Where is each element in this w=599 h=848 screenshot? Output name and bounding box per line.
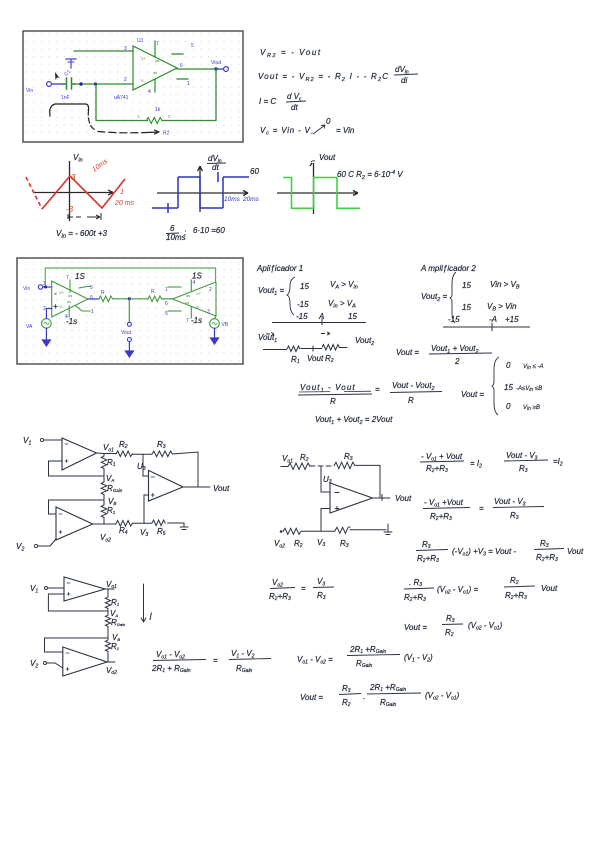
wire V3 to plus input: [144, 495, 149, 523]
svg-text:-15: -15: [448, 315, 460, 324]
resistor R1b chain: [101, 500, 116, 524]
annotation +15 / -15 / - / +: [53, 272, 85, 326]
svg-text:dt: dt: [212, 163, 219, 172]
plus mark: [335, 507, 339, 511]
svg-text:R: R: [101, 290, 105, 296]
resistor R1 chain b: [105, 589, 119, 611]
svg-text:-A: -A: [489, 315, 497, 324]
op-amp U1 uA741: [133, 41, 188, 92]
resistor R2 bottom: [283, 528, 303, 549]
svg-text:3: 3: [207, 309, 210, 315]
svg-text:uA741: uA741: [114, 95, 129, 101]
svg-text:-15: -15: [297, 300, 309, 309]
red labels: [66, 158, 135, 214]
svg-text:15: 15: [504, 383, 513, 392]
wire Vin to pin3: [43, 286, 52, 288]
red wave axes: [33, 161, 113, 221]
wire top feedback: [45, 268, 215, 287]
wire to junction: [132, 453, 152, 455]
svg-text:6: 6: [165, 301, 168, 307]
svg-text:Vout - V3: Vout - V3: [494, 497, 526, 508]
svg-text:R2+R3: R2+R3: [404, 593, 426, 603]
svg-text:2: 2: [124, 77, 127, 83]
node after C1: [79, 82, 82, 85]
svg-text:=: =: [301, 584, 306, 593]
svg-text:6·10 =60: 6·10 =60: [193, 226, 225, 235]
ground VA: [42, 328, 50, 346]
svg-text:-A≤Vin ≤B: -A≤Vin ≤B: [516, 386, 542, 393]
svg-text:R2+R3: R2+R3: [417, 554, 439, 564]
eq Vo1-Vo2 gain: [297, 645, 433, 669]
svg-text::: :: [184, 228, 186, 237]
number line 1: [272, 312, 366, 325]
svg-text:os: os: [186, 293, 190, 298]
svg-text:-: -: [54, 289, 57, 298]
svg-text:VB: VB: [222, 322, 229, 328]
capacitor C1 1nF: [61, 69, 75, 101]
eq Vout big cases: [461, 357, 544, 415]
resistor RGain b: [105, 611, 126, 638]
ground Vout: [125, 342, 133, 358]
svg-text:2: 2: [454, 357, 460, 366]
resistor R3 top: [334, 452, 355, 469]
svg-text:VB > Vin: VB > Vin: [487, 302, 517, 313]
svg-text:R2+R3: R2+R3: [536, 553, 558, 563]
svg-text:V-: V-: [59, 304, 63, 309]
wire output Vout: [373, 495, 391, 501]
svg-text:1k: 1k: [155, 107, 161, 113]
eq line6: [404, 614, 503, 638]
op-amp U3b: [330, 483, 373, 513]
wire junction to minus input: [143, 454, 149, 476]
svg-text:R2+R3: R2+R3: [426, 464, 448, 474]
svg-text:3: 3: [124, 46, 127, 52]
wire plus input: [321, 509, 330, 532]
svg-text:Vout =: Vout =: [300, 693, 323, 702]
node V2 input b: [30, 659, 47, 670]
resistor R3 top: [152, 440, 172, 457]
wire in: [281, 466, 288, 468]
eq Vout1 cases: [258, 277, 358, 315]
svg-text:20ms: 20ms: [242, 196, 260, 203]
terminal Vout2: [121, 322, 132, 341]
svg-text:os: os: [155, 58, 159, 63]
svg-text:0: 0: [326, 117, 331, 126]
svg-text:Vout =: Vout =: [396, 348, 419, 357]
wire junction to minus: [321, 466, 330, 492]
wire R to node: [113, 298, 148, 300]
node V1 input: [23, 436, 44, 447]
svg-text:V1 - V2: V1 - V2: [231, 649, 255, 660]
eq Vout final: [300, 683, 460, 708]
source VB: [210, 319, 229, 329]
svg-text:7: 7: [186, 318, 189, 324]
svg-text:1S: 1S: [192, 272, 202, 281]
svg-text:1S: 1S: [75, 272, 85, 281]
feedback wire OA1: [49, 461, 105, 476]
node Vout2: [128, 297, 131, 300]
svg-text:R2+R3: R2+R3: [505, 591, 527, 601]
terminal Vin2: [23, 285, 43, 292]
svg-text:A: A: [318, 312, 324, 321]
svg-text:Vout: Vout: [541, 584, 558, 593]
op-amp OA-B: [63, 647, 107, 676]
resistor R3 bottom: [335, 527, 350, 549]
number line 2: [443, 315, 530, 331]
svg-text:1: 1: [120, 189, 124, 196]
label dVin/dt: [207, 154, 226, 172]
svg-text:4: 4: [193, 280, 196, 286]
node V2 input: [16, 542, 38, 553]
eq mid fraction: [151, 649, 271, 674]
svg-text:Vout =: Vout =: [461, 390, 484, 399]
svg-text:Vout: Vout: [121, 330, 132, 336]
svg-text:os: os: [185, 300, 189, 305]
eq 6/10ms: [166, 224, 225, 242]
svg-text:Apliƒicador 1: Apliƒicador 1: [256, 264, 303, 273]
supply symbol V+: [66, 59, 76, 68]
resistor R1 chain: [101, 454, 116, 477]
svg-text:os: os: [153, 70, 157, 75]
resistor R1 sketch: [287, 346, 300, 365]
op-amp OA1: [62, 438, 97, 470]
svg-text:Vout: Vout: [211, 60, 222, 66]
svg-text:4: 4: [148, 89, 151, 95]
svg-text:=: =: [479, 504, 484, 513]
svg-text:10ms: 10ms: [224, 196, 241, 203]
brace 20ms dashes: [68, 213, 101, 220]
svg-text:10ms: 10ms: [166, 233, 186, 242]
resistor R1b chain b: [105, 638, 119, 662]
wire OA-A output: [105, 588, 114, 590]
svg-text:R: R: [408, 396, 414, 405]
wire pin3 top: [74, 50, 133, 52]
eq Vout = (Vout1+Vout2)/2: [396, 344, 492, 366]
red triangle wave Vin: [26, 176, 125, 209]
wire R3 to feedback corner: [172, 452, 198, 487]
ground VB: [211, 328, 219, 344]
svg-text:R2+R3: R2+R3: [269, 592, 291, 602]
svg-text:Vin: Vin: [26, 88, 33, 94]
svg-text:15: 15: [348, 312, 357, 321]
feedback OA-A: [48, 594, 108, 611]
resistor R5 bottom: [152, 520, 166, 537]
svg-text:Vout: Vout: [213, 484, 230, 493]
eq line3: [416, 539, 584, 564]
resistor RGain: [101, 476, 123, 500]
svg-text:U1: U1: [137, 38, 144, 44]
wire V2 to OA2: [38, 539, 56, 546]
eq Vout2 cases: [421, 272, 520, 323]
svg-text:I = C: I = C: [259, 97, 276, 106]
svg-text:os: os: [67, 299, 71, 304]
svg-text:0: 0: [506, 402, 511, 411]
wire feedback right: [162, 69, 216, 121]
node output: [214, 67, 217, 70]
svg-text:60: 60: [250, 167, 259, 176]
svg-text:=: =: [375, 385, 380, 394]
svg-text:-3: -3: [66, 205, 74, 214]
wire to ground: [350, 529, 386, 531]
wire node to Vout terminal: [128, 299, 130, 322]
svg-text:6: 6: [170, 224, 175, 233]
svg-text:2: 2: [209, 287, 212, 293]
wire V1 to op-amp: [44, 439, 62, 441]
green wave axes: [277, 163, 358, 214]
op-amp OA-A: [64, 577, 105, 601]
op-amp A1: [52, 280, 90, 317]
terminal Vin: [26, 82, 51, 94]
svg-text:15: 15: [300, 282, 309, 291]
svg-text:A mpliƒicador 2: A mpliƒicador 2: [420, 264, 476, 273]
wire sketch left: [263, 349, 287, 351]
node V1 input b: [30, 584, 48, 595]
resistor R2 sketch: [322, 345, 347, 365]
wire feedback left: [96, 84, 147, 121]
wire to V3 node: [301, 530, 335, 532]
terminal Vout: [211, 60, 228, 71]
svg-text:6: 6: [90, 295, 93, 301]
wire A2 to VB: [215, 316, 217, 319]
eq fraction Vout1-Vout /R: [298, 381, 442, 406]
source VA: [26, 319, 51, 330]
svg-text:di: di: [401, 76, 407, 85]
svg-text:1nF: 1nF: [61, 95, 70, 101]
svg-text:os: os: [68, 293, 72, 298]
svg-text:Vout: Vout: [395, 494, 412, 503]
annotation +15/-15 right: [191, 272, 202, 326]
wire A1 out to R: [88, 298, 99, 300]
svg-text:5: 5: [191, 43, 194, 49]
svg-text:Vin ≤ -A: Vin ≤ -A: [523, 364, 544, 371]
svg-text:Vout: Vout: [319, 153, 336, 162]
svg-text:R2: R2: [163, 131, 170, 137]
op-amp OA2: [56, 507, 93, 540]
op-amp OA3: [149, 470, 184, 501]
svg-text:1: 1: [187, 81, 190, 87]
svg-text:3: 3: [71, 173, 76, 182]
svg-text:V-: V-: [141, 78, 145, 83]
svg-text:2: 2: [43, 306, 46, 312]
svg-text:V+: V+: [141, 56, 147, 61]
cursor arrow: [55, 72, 60, 80]
svg-text:dt: dt: [291, 103, 298, 112]
svg-text:R: R: [330, 397, 336, 406]
feedback OA-B: [45, 638, 109, 652]
wire C1 to pin2: [75, 83, 133, 85]
svg-text:1: 1: [165, 287, 168, 293]
wire OA1 output: [97, 452, 117, 455]
svg-text:-15: -15: [296, 312, 308, 321]
svg-text:-1s: -1s: [66, 317, 77, 326]
green square wave Vout: [283, 178, 360, 209]
wire junction dash: [310, 465, 334, 467]
node Vout sketch: [301, 346, 324, 364]
wire V2b: [47, 663, 63, 668]
wire node to Vout terminal: [216, 68, 223, 70]
svg-text:15: 15: [462, 281, 471, 290]
svg-text:5: 5: [90, 285, 93, 291]
svg-text:-1s: -1s: [191, 316, 202, 325]
svg-text:Vout: Vout: [567, 547, 584, 556]
wire OA2 output: [93, 523, 116, 525]
svg-text:6: 6: [180, 63, 183, 69]
svg-text:Vout =: Vout =: [404, 623, 427, 632]
resistor R4 bottom: [116, 521, 132, 537]
node feedback tap: [94, 82, 97, 85]
wire Vin to C1: [52, 83, 64, 85]
schematic 2 frame: [17, 258, 243, 364]
wire OA-B output: [107, 653, 115, 662]
svg-text:R2+R3: R2+R3: [430, 512, 452, 522]
svg-text:.: .: [363, 692, 365, 701]
svg-text:=: =: [213, 656, 218, 665]
feedback wire OA2: [49, 500, 105, 514]
op-amp A2 mirrored: [168, 280, 216, 318]
node pin3: [44, 286, 47, 289]
pin labels A2: [165, 280, 212, 324]
svg-text:15: 15: [462, 303, 471, 312]
eq line2: [423, 497, 544, 522]
blue wave axes: [157, 166, 248, 212]
ground symbol: [384, 524, 392, 535]
svg-text:Vout: Vout: [307, 354, 324, 363]
svg-text:7: 7: [156, 41, 159, 47]
svg-text:V+: V+: [59, 290, 65, 295]
wire R to A2: [162, 298, 173, 300]
current arrow I: [141, 584, 152, 623]
wire to node V3: [132, 522, 152, 524]
annotation loop arrow: [50, 104, 159, 134]
blue square wave dVin/dt: [152, 172, 249, 213]
wire R3 to corner: [355, 465, 380, 497]
svg-text:20 ms: 20 ms: [114, 200, 135, 207]
svg-text:- Vo1 +Vout: - Vo1 +Vout: [424, 498, 464, 509]
eq line5 right: [404, 576, 558, 603]
svg-text:+15: +15: [505, 315, 519, 324]
svg-text:5: 5: [165, 311, 168, 317]
svg-text:+: +: [53, 302, 58, 311]
wire V1b: [48, 587, 64, 589]
svg-text:VA: VA: [26, 324, 33, 330]
minus mark: [335, 492, 339, 494]
node Vo2 bottom: [274, 530, 285, 549]
wire OA3 output: [183, 486, 210, 488]
current arrows dashed: [266, 332, 330, 336]
svg-text:Vin > VB: Vin > VB: [490, 280, 520, 291]
wire output: [177, 68, 216, 70]
svg-text:Vin: Vin: [23, 286, 30, 292]
resistor R2 1k: [137, 107, 171, 137]
ground symbol: [180, 523, 188, 530]
svg-text:0: 0: [506, 361, 511, 370]
svg-text:= Vin: = Vin: [336, 126, 355, 135]
resistor R2 top: [288, 453, 310, 470]
svg-text:(Vo2 - Vo1) =: (Vo2 - Vo1) =: [437, 585, 478, 596]
pin labels A1: [43, 275, 94, 320]
resistor R2 top: [116, 440, 132, 457]
blue time labels: [224, 196, 260, 203]
svg-text:R: R: [151, 289, 155, 295]
resistor R right: [148, 289, 162, 302]
svg-text:3: 3: [43, 281, 46, 287]
label Vout: [311, 153, 336, 162]
pin labels U1: [114, 38, 194, 101]
svg-text:1: 1: [91, 309, 94, 315]
svg-text:Vin > VA: Vin > VA: [328, 299, 356, 310]
wire R5 to ground: [168, 522, 185, 524]
svg-text:I: I: [149, 611, 152, 623]
schematic 1 frame: [23, 31, 243, 142]
eq line4 left: [269, 577, 334, 602]
wire VA to pin2: [46, 309, 51, 319]
resistor R left: [99, 290, 112, 302]
svg-text:V+: V+: [196, 291, 202, 296]
svg-text:V-: V-: [196, 304, 200, 309]
eq line1 right: [504, 451, 563, 474]
svg-text:7: 7: [66, 275, 69, 281]
svg-text:Vin ≥B: Vin ≥B: [523, 405, 540, 412]
eq line1 left: [420, 452, 482, 474]
